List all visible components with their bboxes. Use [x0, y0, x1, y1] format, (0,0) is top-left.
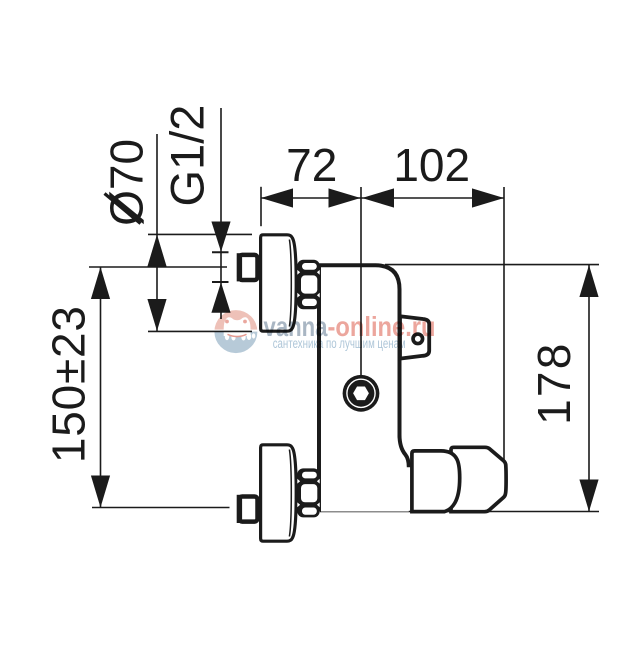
- frog muzzle with eye bumps: [224, 317, 251, 336]
- arrow 102 right: [472, 188, 504, 207]
- bottom flange face line: [289, 450, 291, 537]
- top nut: [297, 260, 319, 310]
- dimension 150+-23: bottom reference line: [92, 507, 230, 509]
- arrow 72 right: [329, 188, 361, 207]
- arrow G1/2 lower (pointing up): [211, 282, 230, 312]
- dimension G1/2: dimension line: [220, 108, 222, 319]
- centerline through screw: [360, 187, 362, 375]
- arrow G1/2 upper (pointing down): [211, 222, 230, 252]
- dimension 150+-23: top reference line: [89, 266, 227, 268]
- waterline: [213, 330, 259, 332]
- bottom stub: [239, 497, 257, 522]
- arrow 150 bottom: [91, 476, 110, 508]
- bracket hole: [411, 332, 424, 345]
- bottom nut: [297, 468, 319, 517]
- main body fill: [319, 265, 409, 511]
- dimension O70: dimension line: [156, 134, 158, 331]
- svg-text:102: 102: [393, 139, 470, 191]
- svg-text:G1/2: G1/2: [161, 105, 214, 207]
- svg-text:сантехника по лучшим ценам: сантехника по лучшим ценам: [273, 336, 406, 351]
- frog eyes: [225, 320, 229, 324]
- arrow O70 bottom: [147, 299, 166, 331]
- svg-text:178: 178: [528, 342, 580, 425]
- dimension G1/2: ticks: [212, 251, 229, 253]
- dimension 72/102 line: [261, 197, 504, 199]
- arrow 102 left: [362, 188, 394, 207]
- wire: top-right extension line (body top to 178 dimension): [385, 264, 599, 266]
- arrow O70 top: [147, 235, 166, 267]
- dimension 178: dimension line: [588, 265, 590, 512]
- arrow 150 top: [91, 267, 110, 299]
- frog smile: [228, 334, 247, 336]
- extension tick left (x=261): [260, 187, 262, 226]
- paw fingers in water: [225, 333, 229, 340]
- dimension 150+-23: dimension line: [100, 267, 102, 508]
- logo circle bottom (blue): [214, 332, 257, 354]
- extension line right (x=504): [503, 187, 505, 462]
- top flange: [261, 235, 297, 331]
- svg-text:150±23: 150±23: [43, 305, 95, 463]
- top nut pinch notches: [297, 270, 300, 275]
- O-slash extension: [105, 194, 141, 224]
- bottom flange: [261, 445, 297, 541]
- top stub (G1/2 connector): [239, 255, 257, 280]
- handle knob (rightmost): [451, 447, 506, 511]
- main body outline: [317, 265, 400, 511]
- dimension O70: extension lines: [148, 233, 252, 235]
- arrow 178 top: [579, 265, 598, 297]
- logo circle top (salmon): [214, 310, 257, 332]
- bottom nut pinch notches: [297, 479, 300, 484]
- body bottom-right hook curve: [400, 435, 409, 467]
- wire: bottom reference line (under handle, to 178 dimension): [320, 511, 599, 513]
- valve body (D shape): [412, 451, 460, 512]
- top flange face line: [289, 240, 291, 327]
- watermark group: [213, 310, 436, 353]
- svg-text:72: 72: [286, 139, 337, 191]
- screw (central): [343, 375, 380, 412]
- arrow 72 left: [261, 188, 293, 207]
- shower bracket: [400, 316, 429, 358]
- arrow 178 bottom: [579, 480, 598, 512]
